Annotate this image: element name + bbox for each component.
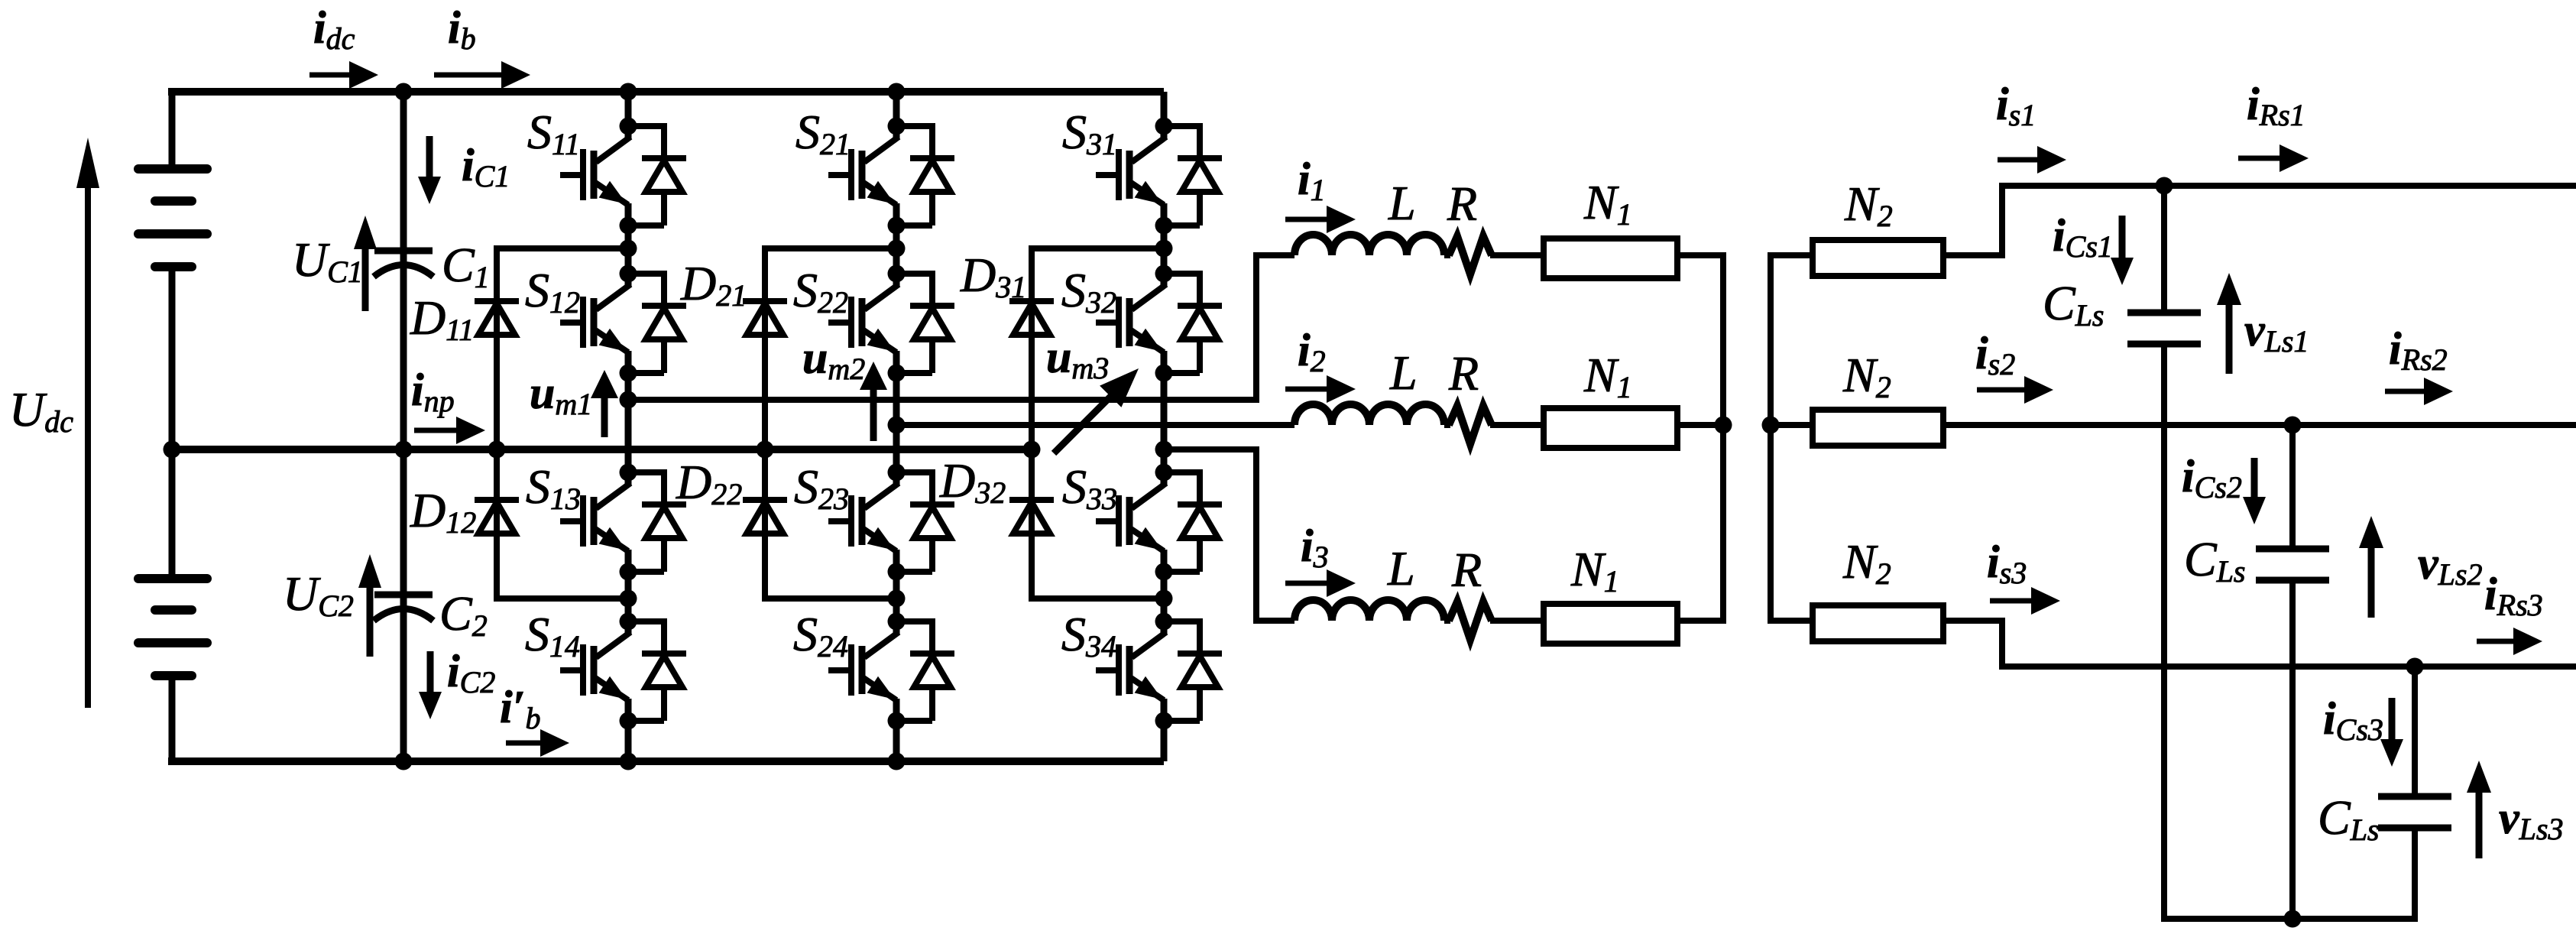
svg-text:R: R: [1447, 177, 1477, 231]
svg-text:R: R: [1451, 543, 1482, 597]
svg-text:L: L: [1387, 541, 1415, 595]
svg-text:L: L: [1389, 345, 1418, 400]
svg-text:L: L: [1388, 176, 1416, 230]
svg-text:R: R: [1448, 346, 1479, 401]
